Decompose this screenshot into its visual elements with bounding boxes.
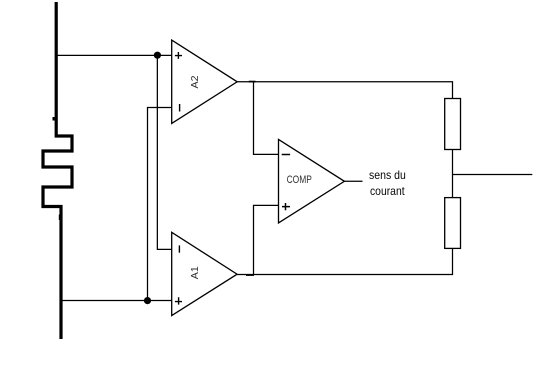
comparator COMP plus input symbol <box>282 203 290 210</box>
op-amp A1 <box>172 232 237 315</box>
svg-text:A1: A1 <box>190 266 201 279</box>
wire: A2 + node down to A1 - input <box>157 55 171 249</box>
resistor R-top <box>445 99 461 150</box>
wire: bus to A1 + input <box>61 300 172 302</box>
wire: mid divider tap to the right <box>453 174 533 176</box>
stray mark on bus (lower) <box>59 215 61 221</box>
wire joint: A1 output / COMP branch tee <box>246 274 254 276</box>
op-amp A1 plus input symbol <box>175 297 182 304</box>
wire: COMP output <box>344 180 362 182</box>
svg-text:A2: A2 <box>190 75 201 88</box>
wire joint: A2 output / COMP branch tee <box>249 81 256 83</box>
op-amp A2 <box>172 40 238 123</box>
op-amp A2 plus input symbol <box>175 52 182 59</box>
comparator COMP minus input symbol <box>282 154 290 156</box>
comparator COMP <box>279 139 345 223</box>
node: junction on A1 + wire <box>144 297 151 304</box>
stray mark on bus (upper) <box>53 117 55 121</box>
wire: between resistors <box>452 150 454 198</box>
wire: bus to A2 + input <box>56 54 172 56</box>
svg-text:COMP: COMP <box>287 174 312 186</box>
wire: A1 output to bottom resistor <box>237 248 452 274</box>
wire: A1 output branch up to COMP + input <box>254 205 280 274</box>
svg-text:courant: courant <box>370 184 405 198</box>
svg-text:sens du: sens du <box>369 168 406 182</box>
resistor R-bottom <box>445 198 461 249</box>
op-amp A1 minus input symbol <box>178 245 180 252</box>
wire: A2 output branch down to COMP - input <box>254 82 280 155</box>
node: junction on A2 + wire <box>154 52 161 59</box>
op-amp A2 minus input symbol <box>179 104 181 112</box>
shunt resistor (thick zigzag bus) <box>43 2 72 339</box>
wire: A2 output to top resistor <box>237 82 452 99</box>
wire: A2 - input left and down to A1 + node <box>148 108 172 301</box>
